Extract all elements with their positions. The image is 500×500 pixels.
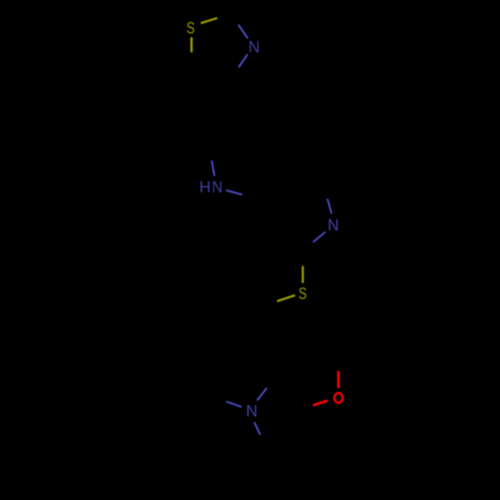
atom S2 (thioether sulfur)	[299, 285, 307, 303]
svg-text:H: H	[199, 179, 211, 197]
bond C-NH (nitrogen half, vertical into HN)	[212, 161, 215, 177]
bond C-S2 (sulfur half, vertical from above)	[302, 266, 304, 283]
svg-text:S: S	[299, 285, 307, 303]
bond N3-C (nitrogen half, down-right)	[254, 422, 260, 435]
atom N3 (tertiary amine nitrogen)	[246, 403, 258, 421]
bond N1-C4 (nitrogen half)	[239, 54, 248, 67]
atom S1 (thiazole sulfur)	[186, 20, 194, 38]
atom N-H (amine H label)	[199, 179, 211, 197]
bond S1-C2 (sulfur half)	[201, 18, 218, 23]
bond N2-C (nitrogen half, down-left)	[313, 232, 325, 242]
svg-text:N: N	[246, 403, 258, 421]
bond C-N3 (nitrogen half, from the left)	[226, 402, 242, 408]
bond C=N2 (nitrogen half, from above)	[327, 199, 331, 214]
atom N2 (imine nitrogen)	[328, 216, 339, 234]
svg-text:N: N	[212, 179, 223, 197]
bond S1-C5 (sulfur half)	[190, 37, 192, 52]
svg-text:N: N	[248, 39, 260, 57]
atom N1 (thiazole nitrogen)	[248, 39, 260, 57]
bond HN-C (nitrogen half, to the right)	[226, 190, 242, 194]
svg-text:N: N	[328, 216, 339, 234]
atom N-H (amine N label)	[212, 179, 223, 197]
bond N3-C (nitrogen half, up-right)	[257, 388, 267, 401]
svg-text:S: S	[186, 20, 194, 38]
bond C2-N1 (nitrogen half)	[238, 25, 248, 39]
atom O (ether oxygen)	[334, 393, 342, 403]
bond S2-C (sulfur half, down-left)	[277, 295, 295, 301]
bond O-C (oxygen half, down-left)	[313, 401, 328, 406]
bond C-O (oxygen half, vertical from above)	[337, 371, 340, 388]
